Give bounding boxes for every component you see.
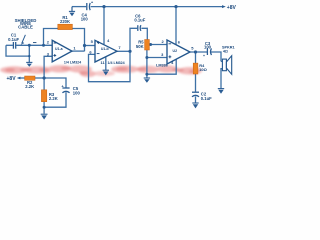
wire ground stub below bus	[146, 74, 148, 78]
svg-text:LM386: LM386	[156, 63, 168, 67]
op-amp U1-a	[47, 39, 81, 64]
capacitor C1	[13, 42, 15, 49]
svg-text:0.1uF: 0.1uF	[8, 37, 19, 42]
wire shield tap vertical	[28, 45, 30, 62]
wire speaker bottom lead	[221, 69, 222, 89]
watermark pink band	[0, 65, 202, 77]
junction ground bus	[145, 73, 148, 76]
capacitor C2	[192, 92, 199, 97]
wire C3 to speaker	[211, 52, 221, 61]
wire U1-b power drop	[103, 7, 105, 45]
speaker SPKR1	[222, 46, 235, 75]
resistor R4	[193, 63, 198, 74]
svg-text:2.2K: 2.2K	[25, 84, 34, 89]
capacitor C6	[138, 25, 141, 31]
junction U1-a output node	[83, 44, 86, 47]
capacitor C3	[207, 48, 211, 55]
svg-text:+: +	[203, 54, 205, 58]
junction R5 bottom / pin 3	[145, 56, 148, 59]
svg-text:50K: 50K	[136, 44, 144, 49]
wire U1-a output	[72, 50, 85, 52]
wire U1-a plus input	[44, 56, 52, 78]
wire C6 to R5 top	[141, 28, 147, 39]
wire node down to R3	[43, 78, 45, 90]
junction U1-b output node	[128, 50, 131, 53]
ground C2	[192, 103, 198, 108]
wire R2 to node	[35, 77, 44, 79]
svg-text:100: 100	[81, 17, 89, 22]
resistor R1	[58, 24, 73, 29]
ground R3/C5	[41, 114, 48, 119]
wire R1 feedback loop	[44, 29, 85, 52]
ground shield input	[26, 62, 32, 66]
svg-text:0.1uF: 0.1uF	[134, 18, 145, 23]
+8V arrow right	[222, 5, 226, 8]
wire U2 power drop	[175, 7, 177, 45]
svg-text:220K: 220K	[60, 19, 70, 24]
resistor R2	[25, 76, 35, 80]
svg-text:+8V: +8V	[7, 76, 17, 82]
wire U1-b minus input loop	[89, 51, 131, 81]
svg-text:U1-a: U1-a	[55, 47, 63, 51]
wire input left of C1	[6, 44, 13, 46]
wire top rail main	[91, 6, 223, 8]
junction rail / U1 power	[102, 5, 105, 8]
svg-text:U2: U2	[173, 49, 178, 53]
wire +8V feed	[20, 77, 25, 79]
resistor R5 pot	[145, 40, 150, 51]
op-amp U1-b	[89, 38, 124, 65]
op-amp U2	[156, 39, 194, 67]
junction input / shield tap	[28, 44, 31, 47]
svg-text:1/4 LM324: 1/4 LM324	[108, 61, 125, 65]
capacitor C5	[62, 88, 69, 93]
junction input / R1 tap	[42, 44, 45, 47]
ground C4 rail	[69, 7, 75, 17]
svg-text:2.2K: 2.2K	[49, 96, 58, 101]
wire node to C5	[44, 78, 66, 88]
wire R4 drop	[195, 52, 197, 63]
svg-text:1/4 LM324: 1/4 LM324	[64, 60, 81, 64]
wire R4 to C2	[195, 74, 197, 92]
wire C6 left branch	[130, 28, 137, 51]
junction U2 output node	[194, 50, 197, 53]
wire input to U1-a pin 2	[16, 44, 52, 46]
svg-text:100: 100	[73, 90, 81, 95]
wire U2 output to C3	[190, 51, 207, 53]
wire U1-a out to U1-b in	[85, 45, 96, 47]
junction rail / U2 power	[174, 5, 177, 8]
ground mid bus	[144, 78, 150, 83]
junction shield bottom	[28, 55, 30, 57]
svg-text:+8V: +8V	[227, 5, 237, 11]
wire C5 bottom L	[44, 92, 66, 107]
ground speaker	[218, 89, 224, 94]
svg-text:10Ω: 10Ω	[199, 67, 207, 72]
wire R5 bottom column	[146, 50, 148, 74]
junction R3 / C5 ground leg	[43, 106, 46, 109]
svg-text:100: 100	[204, 44, 212, 49]
wire R3 bottom	[43, 102, 45, 114]
wire C2 to gnd	[195, 96, 197, 102]
svg-text:4Ω: 4Ω	[223, 50, 228, 54]
wire speaker top lead	[221, 60, 222, 62]
junction R5 wiper	[149, 43, 152, 46]
wire top rail left segment	[72, 6, 86, 8]
+8V arrow left	[17, 77, 21, 80]
svg-text:0.1uF: 0.1uF	[201, 96, 212, 101]
wire ground bus to U2 pin4	[147, 59, 176, 74]
wire U1-b gnd pin	[105, 57, 107, 70]
wire R5 wiper to U2	[151, 44, 167, 46]
svg-text:CABLE: CABLE	[18, 24, 33, 29]
wire U1-b output	[117, 50, 130, 52]
ground U1-b	[103, 70, 109, 75]
resistor R3	[41, 90, 46, 102]
wire shield loop	[6, 45, 29, 56]
capacitor C4	[87, 3, 90, 10]
wire to U2 pin 3	[147, 57, 167, 59]
svg-text:U1-b: U1-b	[101, 47, 109, 51]
junction bias node	[43, 76, 46, 79]
